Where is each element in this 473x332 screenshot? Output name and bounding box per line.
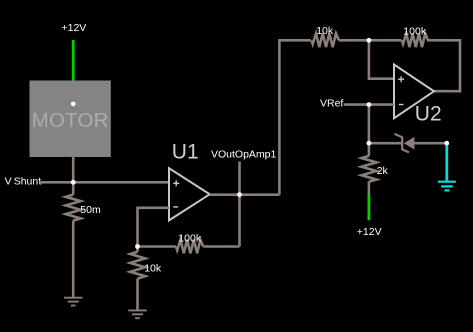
node U1 output junction [237, 192, 242, 197]
svg-text:VRef: VRef [320, 98, 343, 110]
wire: zener node to ground (cyan) [445, 145, 448, 181]
op-amp U2 [394, 65, 442, 126]
resistor R 10k (U1 to ground) [130, 247, 145, 310]
wire: VOutOpAmp1 probe stub [238, 162, 241, 247]
wire: node to U2 non-inverting input [369, 40, 394, 78]
node zener junction [367, 141, 372, 146]
node zener cathode junction [444, 141, 449, 146]
svg-text:10k: 10k [144, 262, 162, 274]
ground (cyan) [438, 182, 456, 191]
svg-text:10k: 10k [316, 25, 334, 37]
ground (below 10k) [128, 310, 147, 318]
svg-text:100k: 100k [178, 232, 202, 244]
zener diode D1 [369, 134, 447, 153]
svg-text:+12V: +12V [357, 226, 382, 238]
wire: U1 inverting input from feedback node [138, 208, 170, 247]
ground (below 50m) [64, 298, 83, 306]
node VShunt junction [71, 180, 76, 185]
wire: VShunt horizontal to U1 non-inverting input [39, 181, 169, 184]
wire: +12V supply to motor (green) [72, 40, 75, 81]
svg-text:U2: U2 [415, 102, 442, 125]
node U2 + input junction [367, 38, 372, 43]
svg-text:V Shunt: V Shunt [5, 176, 42, 188]
wire: 2k to +12V supply (green) [367, 194, 370, 220]
wire: VRef node down to zener node [368, 105, 371, 144]
motor M1 [30, 81, 111, 158]
svg-text:VOutOpAmp1: VOutOpAmp1 [211, 149, 277, 161]
node feedback junction [135, 244, 140, 249]
svg-text:U1: U1 [172, 141, 199, 164]
wire: motor bottom to VShunt node [72, 157, 75, 182]
resistor R 10k (U2 input) [312, 34, 402, 48]
wire: U1 output [210, 193, 280, 196]
resistor R 100k (U2 feedback) [402, 34, 428, 48]
op-amp U1 [169, 141, 210, 221]
svg-text:+12V: +12V [62, 22, 87, 34]
svg-text:MOTOR: MOTOR [32, 109, 109, 132]
svg-text:100k: 100k [403, 25, 427, 37]
wire: riser from U1 output up to 10k [279, 40, 310, 194]
svg-text:2k: 2k [377, 165, 389, 177]
resistor R 50m [66, 182, 81, 297]
node VRef junction [367, 102, 372, 107]
wire: U2 feedback loop to output [427, 40, 460, 91]
wire: VRef to U2 inverting input [344, 103, 394, 106]
resistor R 100k (U1 feedback) [138, 240, 240, 254]
resistor R 2k [362, 143, 377, 194]
svg-text:50m: 50m [80, 204, 101, 216]
